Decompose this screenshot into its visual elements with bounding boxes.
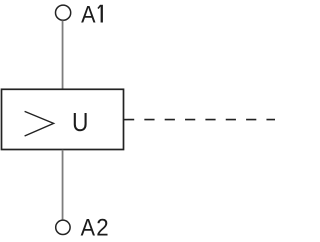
terminal A2 <box>56 220 70 234</box>
label A2 <box>81 215 109 242</box>
threshold chevron > <box>25 111 54 136</box>
dashed linkage line <box>124 119 276 121</box>
svg-text:2: 2 <box>96 215 108 242</box>
svg-text:U: U <box>72 109 88 137</box>
wire <box>62 150 64 220</box>
svg-text:A: A <box>81 2 95 29</box>
svg-text:A: A <box>81 215 95 242</box>
terminal A1 <box>56 5 71 20</box>
voltage monitor box U <box>2 89 124 149</box>
label A1 <box>81 2 103 29</box>
wire <box>62 21 64 89</box>
